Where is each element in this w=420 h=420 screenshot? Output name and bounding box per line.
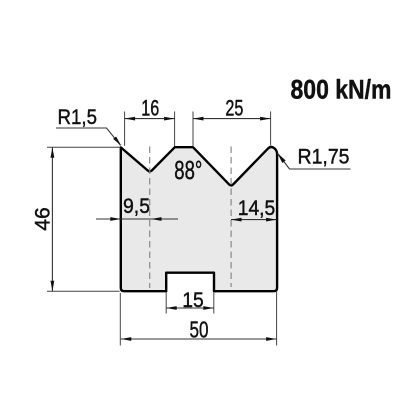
svg-text:88°: 88° <box>174 157 202 185</box>
svg-text:50: 50 <box>190 317 209 343</box>
svg-text:15: 15 <box>182 288 204 312</box>
svg-text:14,5: 14,5 <box>238 197 276 220</box>
svg-text:R1,75: R1,75 <box>298 144 350 168</box>
svg-text:25: 25 <box>225 96 243 121</box>
svg-text:9,5: 9,5 <box>123 195 150 218</box>
svg-text:800 kN/m: 800 kN/m <box>291 75 392 105</box>
svg-text:46: 46 <box>32 207 55 231</box>
svg-text:R1,5: R1,5 <box>58 105 98 129</box>
svg-text:16: 16 <box>141 96 159 121</box>
